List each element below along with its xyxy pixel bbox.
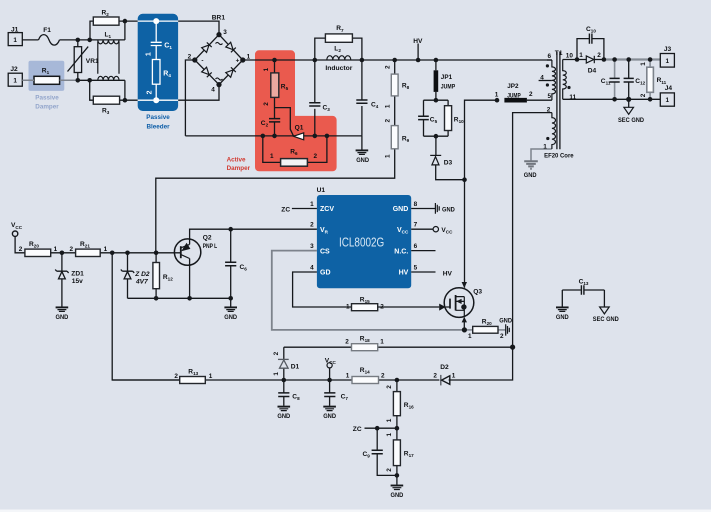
wire C3 top: [314, 60, 316, 103]
wire bleeder top to BR1 node 3: [178, 21, 219, 34]
wire D4 cathode to output node: [594, 59, 605, 61]
Vcc terminal left: [12, 231, 17, 236]
junction R2 right: [123, 19, 128, 24]
svg-text:JP2: JP2: [507, 83, 519, 90]
wire R6 right leg: [307, 136, 327, 163]
junction R6 left on damper rail: [261, 134, 266, 139]
capacitor C7: [324, 393, 335, 397]
node BR1 pin 2: [192, 57, 197, 62]
svg-text:5: 5: [414, 264, 418, 271]
ground under ZD1: [56, 306, 69, 308]
wire Q2 emitter down: [189, 259, 191, 299]
node BR1 pin 3: [216, 32, 221, 37]
resistor R2: [93, 17, 119, 25]
junction feedback column top: [110, 251, 115, 256]
resistor R13: [180, 377, 206, 384]
wire ZD2 top: [127, 253, 129, 271]
junction VR1 bottom: [76, 78, 81, 83]
wire R17 bottom: [396, 466, 398, 476]
svg-text:D2: D2: [440, 364, 449, 371]
transistor Q2: [174, 239, 200, 265]
wire R18 row: [284, 346, 513, 348]
junction clamp bottom node: [434, 134, 439, 139]
wire R20 to R21: [51, 252, 76, 254]
wire C5 branch top: [423, 100, 425, 116]
wire BR1 node 2 down to damper rail: [185, 60, 194, 136]
svg-text:JUMP: JUMP: [507, 92, 521, 99]
capacitor C1: [151, 42, 162, 45]
svg-text:D1: D1: [291, 363, 300, 370]
wire T1 pin 6 from bus: [547, 59, 552, 61]
T1 phase dot primary upper: [546, 64, 549, 67]
svg-text:Damper: Damper: [227, 165, 251, 172]
resistor R12: [153, 263, 160, 289]
wire Vcc terminal to R20: [15, 237, 25, 253]
svg-text:HV: HV: [443, 270, 453, 277]
junction R5 top on HV bus: [272, 58, 277, 63]
junction C11 top: [612, 57, 617, 62]
wire R21 to Q2 base: [100, 252, 180, 254]
wire C10 left branch: [577, 39, 589, 60]
transformer T1 core: [557, 52, 560, 149]
wire R3 left stub: [90, 80, 94, 100]
zener diode ZD2: [121, 270, 134, 279]
wire VR1 top stub: [77, 40, 79, 47]
resistor R9: [391, 126, 398, 149]
transistor Q3 mosfet: [444, 288, 474, 318]
wire C8 top: [283, 380, 285, 393]
resistor R1: [34, 76, 60, 84]
wire C9 top: [376, 428, 378, 450]
svg-text:2: 2: [500, 333, 504, 340]
junction R3 right: [123, 98, 128, 103]
svg-text:7: 7: [414, 222, 418, 229]
wire R6 left leg: [263, 136, 281, 163]
T1 phase dot aux: [546, 137, 549, 140]
wire R7 left stub: [315, 38, 326, 60]
junction VR1 top: [76, 38, 81, 43]
junction R11 bottom: [648, 97, 653, 102]
wire R10 branch top: [447, 100, 449, 106]
svg-text:Active: Active: [227, 156, 246, 163]
ground under C13 left: [556, 306, 569, 308]
sec ground under C13 right: [600, 307, 610, 314]
svg-text:Damper: Damper: [35, 103, 59, 110]
svg-text:3: 3: [223, 29, 227, 36]
wire F1 to L1 node: [60, 39, 125, 41]
resistor R5: [271, 73, 279, 98]
svg-text:2: 2: [263, 102, 270, 106]
capacitor C3: [309, 103, 320, 106]
resistor R4: [152, 60, 160, 85]
junction C4 top on HV bus: [360, 58, 365, 63]
resistor R16: [393, 392, 400, 416]
wire C3 bottom: [314, 109, 316, 136]
svg-text:GND: GND: [323, 413, 336, 420]
node JP2 pin 1: [495, 98, 500, 103]
zener diode ZD1: [55, 270, 68, 279]
op-amp controller U1 ICL8002G body: [317, 195, 411, 288]
wire C12 to sec ground: [628, 99, 630, 107]
junction D4 cathode C10: [602, 57, 607, 62]
wire R9 bottom to Q2 base rail: [156, 149, 395, 253]
svg-text:Q3: Q3: [473, 289, 482, 296]
capacitor C4: [356, 100, 367, 103]
wire R7 right stub: [352, 38, 362, 60]
svg-text:GND: GND: [556, 314, 569, 321]
wire pin 7 to Vcc circle: [411, 228, 433, 230]
resistor R15: [352, 304, 378, 311]
wire R12 bottom: [155, 289, 157, 299]
resistor R17: [393, 440, 400, 466]
wire C4 top: [361, 60, 363, 100]
capacitor C8: [278, 393, 289, 397]
resistor R20: [25, 249, 51, 256]
ground under T1 pin 1 (gray): [524, 161, 538, 169]
wire R20b to ground bars: [498, 329, 506, 331]
diode D1: [278, 359, 289, 368]
svg-text:5: 5: [547, 93, 551, 100]
svg-text:GND: GND: [391, 492, 404, 499]
wire left feedback column: [112, 253, 180, 380]
svg-text:2: 2: [69, 246, 73, 253]
inductor L1 upper winding: [98, 40, 119, 74]
svg-text:PNP L: PNP L: [203, 243, 218, 250]
junction Q3 source node: [462, 327, 467, 332]
wire C12 column: [628, 60, 630, 100]
wire damper rail: [185, 135, 362, 137]
resistor R21: [76, 249, 101, 256]
svg-text:EF20 Core: EF20 Core: [544, 152, 574, 159]
svg-text:BR1: BR1: [212, 14, 226, 21]
svg-text:1: 1: [579, 52, 583, 59]
svg-text:HV: HV: [399, 270, 409, 277]
wire C5 branch bottom: [423, 120, 425, 136]
wire pin 5 to HV label: [411, 271, 435, 273]
wire VR1 bottom stub: [77, 73, 79, 81]
svg-text:1: 1: [263, 67, 270, 71]
svg-text:Z D2: Z D2: [134, 271, 150, 278]
junction C11 bottom: [612, 97, 617, 102]
svg-text:2: 2: [386, 385, 393, 389]
svg-text:Q2: Q2: [203, 234, 212, 241]
svg-text:1: 1: [54, 246, 58, 253]
wire JP1 top stub: [435, 60, 437, 70]
wire R5 top stub: [274, 60, 276, 73]
wire C8 to ground: [283, 397, 285, 406]
junction L1 upper left: [87, 38, 92, 43]
svg-text:1: 1: [495, 92, 499, 99]
wire Q2 emitter rail: [128, 297, 231, 299]
capacitor C5: [418, 116, 429, 119]
svg-text:D3: D3: [444, 160, 453, 167]
wire bleeder bottom to BR1 node 4: [178, 85, 219, 101]
svg-text:+: +: [236, 58, 240, 65]
junction ZD2 top: [125, 251, 130, 256]
wire T1 tap pin 4: [539, 80, 552, 82]
svg-text:1: 1: [380, 338, 384, 345]
wire R8 to R9: [394, 96, 396, 126]
wire ZD2 bottom: [127, 279, 129, 298]
svg-text:Inductor: Inductor: [325, 65, 352, 72]
resistor R8: [391, 74, 398, 96]
wire JP1 bottom stub: [435, 92, 437, 100]
wire R2 right to bleeder box: [119, 20, 138, 22]
Vcc terminal bottom: [327, 363, 332, 368]
svg-text:1: 1: [270, 153, 274, 160]
wire J2 to R1 (gray): [22, 79, 78, 81]
wire C5 R10 bottom bracket: [424, 135, 449, 137]
svg-text:J2: J2: [10, 66, 18, 73]
wire D1 bottom: [283, 368, 285, 380]
junction R16 top node: [395, 378, 400, 383]
svg-text:1: 1: [386, 418, 393, 422]
svg-text:2: 2: [381, 373, 385, 380]
svg-text:U1: U1: [317, 187, 326, 194]
svg-text:1: 1: [13, 77, 17, 84]
wire drain column to Q3: [464, 180, 466, 288]
svg-text:GND: GND: [393, 206, 409, 213]
BR1 diode bottom-right: [226, 67, 236, 77]
svg-text:2: 2: [640, 93, 647, 97]
svg-text:1: 1: [543, 144, 547, 151]
svg-text:T1: T1: [555, 50, 563, 57]
Q3 source node dot: [461, 304, 466, 309]
resistor R20b source: [473, 326, 498, 333]
wire clamp node to D3: [435, 136, 437, 155]
wire bottom aux row left: [112, 379, 439, 381]
junction aux feedback node: [510, 345, 515, 350]
wire C2 to damper rail: [274, 122, 276, 136]
wire riser to R2 right node: [124, 21, 126, 40]
wire pin 6 nc: [411, 250, 435, 252]
passive damper highlight box: [29, 61, 65, 91]
svg-text:6: 6: [414, 243, 418, 250]
svg-text:6: 6: [547, 53, 551, 60]
wire R3 right to bleeder box: [120, 99, 138, 101]
junction T1 pin 10 C10 branch: [575, 57, 580, 62]
wire secondary pin 10: [563, 59, 587, 61]
svg-text:2: 2: [147, 90, 154, 94]
inductor L1 lower winding: [98, 76, 119, 80]
wire R15 to Q3 gate: [378, 306, 440, 308]
ground under C4: [356, 149, 369, 151]
connector J4: [660, 93, 674, 106]
wire R16 bottom: [396, 416, 398, 429]
svg-text:1: 1: [273, 372, 280, 376]
wire pin 8 to ground: [411, 208, 435, 210]
svg-text:15v: 15v: [72, 278, 83, 285]
svg-text:GND: GND: [224, 314, 237, 321]
svg-text:8: 8: [414, 201, 418, 208]
svg-text:JP1: JP1: [441, 74, 453, 81]
wire JP2 node to drain column: [465, 100, 498, 180]
svg-text:2: 2: [174, 373, 178, 380]
svg-text:2: 2: [529, 91, 533, 98]
svg-text:11: 11: [569, 94, 576, 101]
svg-text:Passive: Passive: [35, 94, 59, 101]
wire Q1 gate tap: [275, 108, 294, 136]
jumper JP2: [504, 98, 527, 103]
wire J1 to F1: [22, 39, 38, 41]
wire Vcc bottom terminal: [329, 368, 331, 380]
svg-text:1: 1: [247, 53, 251, 60]
active damper highlight box: [255, 50, 337, 171]
wire Q2 collector to VR line: [190, 229, 317, 244]
wire C13 right: [584, 290, 604, 307]
svg-text:HV: HV: [413, 38, 423, 45]
resistor R6: [281, 159, 308, 167]
wire Q3 source down: [463, 318, 465, 330]
wire ZD1 to ground: [61, 279, 63, 307]
wire R17 ground stub: [396, 475, 398, 484]
transformer T1 primary winding: [552, 60, 556, 100]
svg-text:ZCV: ZCV: [320, 206, 334, 213]
svg-text:ZC: ZC: [281, 207, 290, 214]
svg-text:1: 1: [385, 104, 392, 108]
resistor R18: [352, 344, 378, 351]
junction C3 bottom on damper rail: [313, 134, 318, 139]
svg-text:GND: GND: [56, 314, 69, 321]
svg-text:1: 1: [346, 303, 350, 310]
connector J3: [660, 54, 674, 68]
svg-text:Passive: Passive: [146, 114, 170, 121]
svg-text:2: 2: [345, 338, 349, 345]
wire R5 to C2: [274, 97, 276, 118]
junction C12 bottom: [626, 97, 631, 102]
capacitor C11: [610, 78, 620, 82]
svg-text:2: 2: [314, 153, 318, 160]
diode D2: [441, 375, 450, 386]
ground under R17: [391, 485, 404, 487]
svg-text:ZD1: ZD1: [71, 270, 84, 277]
svg-text:1: 1: [468, 333, 472, 340]
wire L1 lower to R3 right node: [124, 80, 126, 100]
capacitor C12: [624, 78, 634, 82]
junction D1 bottom: [282, 378, 287, 383]
junction D3 to drain column: [462, 177, 467, 182]
svg-text:GND: GND: [524, 172, 537, 179]
svg-text:2: 2: [433, 372, 437, 379]
resistor R11: [647, 67, 654, 92]
svg-text:1: 1: [385, 154, 392, 158]
wire C4 bottom: [361, 106, 363, 136]
svg-text:J4: J4: [665, 85, 673, 92]
wire C7 top: [329, 380, 331, 393]
capacitor C2: [269, 119, 280, 122]
bridge rectifier BR1: [195, 35, 243, 85]
jumper JP1: [434, 70, 439, 92]
junction C6 bottom: [228, 296, 233, 301]
wire C11 column: [614, 60, 616, 100]
svg-text:1: 1: [310, 201, 314, 208]
wire ZC to pin 1: [292, 208, 317, 210]
svg-text:SEC GND: SEC GND: [618, 117, 644, 124]
svg-text:2: 2: [188, 53, 192, 60]
transistor Q1: [293, 133, 303, 140]
ground under C8: [278, 406, 291, 408]
svg-text:2: 2: [380, 303, 384, 310]
junction C2 bottom on damper rail: [272, 134, 277, 139]
sec ground under C12: [624, 107, 634, 114]
ground at pin 8: [435, 203, 439, 214]
wire R17 top: [396, 428, 398, 440]
wire C5 R10 top bracket: [424, 99, 449, 101]
svg-text:D4: D4: [588, 67, 597, 74]
junction R17 bottom node: [395, 473, 400, 478]
wire R10 branch bottom: [447, 131, 449, 137]
capacitor C10: [589, 34, 592, 44]
wire secondary return rail: [563, 98, 661, 100]
node BR1 pin 1: [240, 57, 245, 62]
Q3 drain arrow: [462, 282, 467, 288]
svg-text:4: 4: [310, 264, 314, 271]
wire damper node to L1 lower: [78, 79, 125, 81]
svg-text:1: 1: [13, 37, 17, 44]
svg-text:GND: GND: [499, 318, 512, 325]
svg-text:1: 1: [452, 372, 456, 379]
junction R6 right on damper rail: [325, 134, 330, 139]
svg-text:4: 4: [211, 87, 215, 94]
wire D2 to feedback column: [449, 347, 513, 380]
BR1 diode top-right: [226, 42, 236, 52]
bleeder node bottom: [153, 97, 159, 103]
svg-text:SEC GND: SEC GND: [593, 316, 619, 323]
svg-text:4: 4: [540, 74, 544, 81]
svg-text:CS: CS: [320, 248, 330, 255]
passive bleeder internals: [138, 21, 178, 100]
svg-text:J3: J3: [664, 46, 672, 53]
svg-text:1: 1: [209, 373, 213, 380]
wire ZC node row: [365, 427, 397, 429]
svg-text:GND: GND: [356, 157, 369, 164]
capacitor C6: [225, 262, 236, 266]
transformer T1 secondary winding: [563, 60, 567, 100]
svg-text:2: 2: [386, 468, 393, 472]
svg-text:Q1: Q1: [295, 124, 304, 131]
wire C6 ground stub: [230, 298, 232, 306]
junction ZD1 top: [60, 251, 65, 256]
svg-text:2: 2: [310, 222, 314, 229]
T1 phase dot secondary: [567, 86, 570, 89]
node BR1 pin 4: [216, 82, 221, 87]
wire R8 top stub: [394, 60, 396, 74]
junction HV stub: [416, 58, 421, 63]
BR1 diode bottom-left: [202, 67, 212, 77]
svg-text:J1: J1: [11, 27, 19, 34]
svg-text:JUMP: JUMP: [441, 83, 456, 90]
wire secondary output rail: [604, 58, 660, 60]
svg-text:2: 2: [385, 118, 392, 122]
svg-text:ICL8002G: ICL8002G: [339, 234, 384, 249]
ground at R20b (rotated): [506, 324, 510, 335]
fuse F1: [39, 35, 60, 46]
svg-text:N.C.: N.C.: [394, 248, 408, 255]
wire D1 top from R18 row: [283, 347, 285, 359]
wire C9 bottom loop: [377, 454, 397, 475]
T1 phase dot primary lower: [546, 83, 549, 86]
Q3 gate arrow: [439, 304, 445, 311]
junction R8 top on HV bus: [392, 58, 397, 63]
svg-text:1: 1: [104, 246, 108, 253]
svg-text:1: 1: [386, 432, 393, 436]
wire source dot to R20b: [464, 329, 472, 331]
svg-text:GD: GD: [320, 270, 331, 277]
svg-text:F1: F1: [43, 27, 51, 34]
svg-text:2: 2: [385, 65, 392, 69]
wire C13 left: [562, 290, 581, 307]
svg-text:ZC: ZC: [353, 426, 362, 433]
